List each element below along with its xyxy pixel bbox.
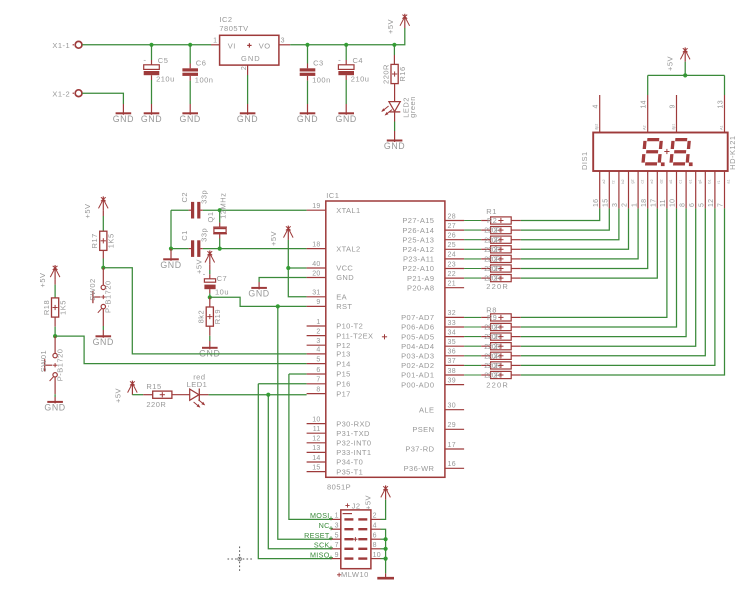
svg-text:GND: GND	[44, 403, 65, 413]
svg-text:2: 2	[494, 274, 498, 283]
junction XTAL2	[218, 247, 222, 251]
IC1 pin 29 PSEN	[412, 422, 464, 434]
IC1 pin 10 P30-RXD	[307, 416, 371, 428]
IC1 pin 8 P17	[307, 386, 351, 398]
net label SCK	[314, 541, 333, 550]
wire R5 to display	[521, 208, 638, 259]
crystal Q1 12MHz	[206, 193, 228, 239]
svg-text:SCK: SCK	[314, 541, 330, 550]
svg-text:8: 8	[316, 386, 320, 393]
wire XTAL2 net	[220, 248, 307, 250]
IC1 pin 17 P37-RD	[405, 442, 464, 454]
svg-text:LED1: LED1	[187, 380, 208, 389]
junction	[344, 43, 348, 47]
ground (LED2)	[384, 131, 405, 151]
R15 left stub	[143, 394, 153, 396]
wire SW1 to P14	[55, 336, 307, 364]
svg-text:P-B1720: P-B1720	[103, 280, 112, 313]
svg-text:P22-A10: P22-A10	[402, 264, 434, 273]
svg-text:13: 13	[312, 445, 320, 452]
svg-text:P04-AD4: P04-AD4	[401, 342, 434, 351]
IC1 pin 33 P06-AD6	[401, 320, 464, 332]
svg-text:33p: 33p	[200, 228, 209, 242]
wire C3 top	[307, 45, 309, 64]
svg-text:P01-AD1: P01-AD1	[401, 371, 434, 380]
svg-text:4: 4	[316, 347, 320, 354]
resistor R14 220R	[464, 370, 521, 379]
svg-text:P33-INT1: P33-INT1	[336, 448, 371, 457]
svg-text:P15: P15	[336, 370, 351, 379]
LED1 right stub	[199, 394, 208, 396]
net label MISO	[310, 550, 333, 559]
IC1 pin 12 P32-INT0	[307, 436, 372, 448]
+5V symbol (display)	[666, 47, 691, 71]
svg-text:220R: 220R	[484, 351, 500, 360]
LED D2 (LED2 green)	[381, 96, 417, 118]
svg-text:b2: b2	[621, 179, 625, 183]
svg-text:RST: RST	[336, 302, 352, 311]
svg-text:6: 6	[689, 203, 696, 207]
IC1 pin 4 P13	[307, 347, 351, 359]
junction SW1 net	[53, 334, 57, 338]
resistor R3 220R	[464, 235, 521, 244]
ground (SW1)	[44, 397, 65, 413]
svg-text:12: 12	[708, 199, 715, 207]
capacitor C5 210u	[143, 56, 174, 84]
display pin 13 stub	[718, 95, 725, 133]
svg-text:HD-K121: HD-K121	[728, 135, 737, 169]
J2 ground stub	[385, 573, 387, 578]
wire RST to J2 RESET	[278, 306, 331, 539]
svg-text:3: 3	[335, 522, 339, 529]
wire R8 to display	[521, 208, 667, 317]
wire P16 to J2 MISO	[258, 384, 331, 559]
svg-text:GND: GND	[336, 273, 354, 282]
svg-text:2: 2	[494, 370, 498, 379]
net label RESET	[304, 531, 333, 540]
SW1 bottom stub	[54, 377, 56, 394]
wire R17 to SW2	[102, 259, 104, 268]
wire J2 pin 8	[381, 548, 386, 550]
svg-text:R16: R16	[398, 66, 407, 81]
svg-text:g1: g1	[698, 179, 702, 183]
IC1 pin 40 VCC	[307, 261, 354, 273]
display pin 9 stub	[670, 95, 677, 133]
R18 top stub	[54, 279, 56, 284]
svg-text:c2: c2	[640, 180, 644, 184]
svg-text:GND: GND	[93, 337, 114, 347]
wire C5 top	[151, 45, 153, 60]
svg-text:2: 2	[316, 328, 320, 335]
svg-text:7: 7	[718, 203, 725, 207]
display origin cross	[664, 149, 669, 154]
junction	[305, 43, 309, 47]
svg-text:40: 40	[312, 261, 320, 268]
svg-text:NC: NC	[319, 521, 330, 530]
IC1 pin 19 XTAL1	[307, 203, 361, 215]
net label MOSI	[310, 511, 333, 520]
svg-text:15: 15	[603, 199, 610, 207]
svg-text:5: 5	[699, 203, 706, 207]
wire R11 to display	[521, 208, 696, 346]
svg-text:220R: 220R	[484, 226, 500, 235]
svg-text:P02-AD2: P02-AD2	[401, 361, 434, 370]
svg-text:10: 10	[312, 416, 320, 423]
svg-text:c1: c1	[679, 180, 683, 184]
ground (C6)	[180, 104, 201, 124]
svg-text:VI: VI	[228, 41, 236, 50]
svg-text:220R: 220R	[484, 323, 500, 332]
resistor R13 220R	[464, 361, 521, 370]
wire X1-2 to ground	[82, 93, 123, 104]
wire to pin 14	[647, 75, 649, 95]
svg-text:1: 1	[631, 203, 638, 207]
svg-text:g2: g2	[631, 179, 635, 183]
svg-text:14: 14	[641, 100, 648, 108]
wire C4 to ground	[345, 80, 347, 104]
svg-text:GND: GND	[141, 114, 162, 124]
svg-text:R17: R17	[90, 233, 99, 248]
IC1 pin 9 RST	[307, 299, 353, 311]
J2 pin 6 stub	[371, 532, 381, 539]
display pin 8 stub	[679, 171, 692, 208]
wire C6 to ground	[189, 81, 191, 104]
IC1 pin 39 P00-AD0	[401, 377, 464, 389]
svg-text:25: 25	[448, 242, 456, 249]
J2 pin 7 stub	[331, 542, 341, 549]
svg-text:12MHz: 12MHz	[219, 193, 228, 219]
wire P15 to J2 MOSI	[289, 374, 331, 519]
junction	[188, 43, 192, 47]
wire VCC stub	[288, 267, 306, 269]
wire R12 to display	[521, 208, 706, 355]
svg-text:dp2: dp2	[595, 124, 599, 130]
IC1 pin 15 P35-T1	[307, 464, 364, 476]
wire R13 to display	[521, 208, 715, 365]
IC1 pin 3 P12	[307, 338, 351, 350]
ground (C4)	[336, 104, 357, 124]
svg-text:2: 2	[494, 245, 498, 254]
IC1 pin 20 GND	[307, 270, 355, 282]
svg-text:P14: P14	[336, 359, 351, 368]
ground (SW2)	[93, 330, 114, 347]
IC1 pin 32 P07-AD7	[401, 310, 464, 322]
C2 plates	[191, 202, 200, 219]
IC1 pin 31 EA	[307, 290, 347, 302]
C2 left stub	[189, 209, 191, 211]
display pin 12 stub	[708, 171, 721, 208]
display pin 15 stub	[603, 171, 616, 208]
svg-text:P07-AD7: P07-AD7	[401, 313, 434, 322]
svg-text:9: 9	[335, 552, 339, 559]
ground (J2)	[377, 577, 394, 580]
svg-text:18: 18	[641, 199, 648, 207]
svg-text:220R: 220R	[484, 361, 500, 370]
svg-text:P24-A12: P24-A12	[402, 245, 434, 254]
wire C6 top	[189, 45, 191, 64]
resistor R1 220R	[464, 216, 521, 225]
svg-text:10: 10	[670, 199, 677, 207]
IC2 pin 1 stub	[211, 44, 220, 46]
IC1 pin 7 P16	[307, 377, 351, 389]
svg-text:P11-T2EX: P11-T2EX	[336, 331, 373, 340]
svg-text:16: 16	[593, 199, 600, 207]
svg-text:GND: GND	[180, 114, 201, 124]
svg-text:8k2: 8k2	[197, 310, 206, 324]
junction crystal ground	[169, 247, 173, 251]
svg-text:2: 2	[494, 322, 498, 331]
C5 bottom stub	[151, 75, 153, 80]
connector X1-1	[52, 41, 82, 50]
svg-text:PSEN: PSEN	[412, 425, 434, 434]
junction J2 pin 6	[384, 537, 388, 541]
capacitor C2 33p	[180, 190, 209, 204]
svg-text:R19: R19	[213, 309, 222, 324]
svg-text:220R: 220R	[484, 371, 500, 380]
svg-text:IC2: IC2	[219, 15, 232, 24]
svg-text:1: 1	[316, 319, 320, 326]
svg-text:GND: GND	[160, 260, 181, 270]
wire +5V to EA	[288, 240, 306, 297]
svg-text:X1-1: X1-1	[52, 41, 70, 50]
svg-text:8051P: 8051P	[327, 483, 351, 492]
display pin 11 stub	[660, 171, 673, 208]
svg-text:10u: 10u	[215, 288, 229, 297]
SW2 top stub	[102, 268, 104, 286]
resistor R6 220R	[464, 264, 521, 273]
svg-text:C6: C6	[196, 59, 207, 68]
connector J2 MLW10 body	[337, 501, 371, 579]
svg-text:9: 9	[670, 104, 677, 108]
svg-text:22: 22	[448, 271, 456, 278]
wire anode rail	[648, 74, 725, 76]
J2 pin 3 stub	[331, 522, 341, 529]
svg-text:4: 4	[593, 104, 600, 108]
wire R18 to SW1	[54, 327, 56, 336]
svg-text:5: 5	[335, 532, 339, 539]
svg-text:+5V: +5V	[83, 203, 92, 218]
wire C4 top	[345, 45, 347, 60]
svg-text:27: 27	[448, 223, 456, 230]
wire IC2 GND down	[247, 75, 249, 104]
svg-text:P30-RXD: P30-RXD	[336, 419, 371, 428]
wire C7 top	[209, 270, 211, 274]
IC1 pin 23 P22-A10	[402, 261, 464, 273]
svg-text:35: 35	[448, 339, 456, 346]
svg-text:3: 3	[612, 203, 619, 207]
wire C3 to ground	[307, 81, 309, 104]
J2 pin 4 stub	[371, 522, 381, 529]
wire P16 stub	[258, 383, 306, 385]
svg-text:220R: 220R	[486, 380, 509, 389]
svg-text:GND: GND	[237, 114, 258, 124]
wire P17 to J2 SCK	[268, 395, 331, 549]
svg-text:220R: 220R	[484, 342, 500, 351]
svg-text:12: 12	[312, 436, 320, 443]
svg-text:9: 9	[493, 313, 497, 322]
svg-text:26: 26	[448, 233, 456, 240]
IC1 pin 34 P05-AD5	[401, 329, 464, 341]
svg-text:green: green	[408, 96, 417, 118]
svg-text:GND: GND	[384, 141, 405, 151]
R17 top stub	[102, 211, 104, 216]
svg-text:R1: R1	[486, 207, 497, 216]
wire +5V to R17	[102, 216, 104, 231]
+5V symbol (C7)	[195, 251, 215, 275]
svg-text:d1: d1	[669, 179, 673, 183]
capacitor C4 210u	[338, 56, 369, 84]
display pin 6 stub	[689, 171, 702, 208]
svg-text:24: 24	[448, 252, 456, 259]
ground (IC1)	[248, 282, 269, 299]
svg-text:1K5: 1K5	[59, 300, 68, 315]
svg-text:C5: C5	[158, 56, 169, 65]
display pin 1 stub	[631, 171, 644, 208]
R19 top stub	[209, 297, 211, 307]
IC1 pin 35 P04-AD4	[401, 339, 464, 351]
svg-text:15: 15	[312, 464, 320, 471]
wire J2 pin 6	[381, 538, 386, 540]
svg-text:9: 9	[316, 299, 320, 306]
wire crystal caps ground rail	[170, 210, 172, 248]
svg-text:17: 17	[448, 442, 456, 449]
svg-text:X1-2: X1-2	[52, 89, 70, 98]
wire R2 to display	[521, 208, 610, 230]
svg-text:GND: GND	[113, 114, 134, 124]
R18 bottom stub	[54, 317, 56, 327]
LED2 bottom stub	[394, 112, 396, 122]
wire R4 to display	[521, 208, 629, 249]
svg-text:P32-INT0: P32-INT0	[336, 439, 371, 448]
wire R6 to display	[521, 208, 648, 268]
IC1 pin 24 P23-A11	[403, 252, 464, 264]
wire R19 to ground	[209, 336, 211, 341]
svg-text:GND: GND	[336, 114, 357, 124]
svg-text:R15: R15	[146, 382, 161, 391]
ground (R19)	[199, 341, 220, 358]
IC2 pin 3 stub	[279, 44, 290, 46]
svg-text:Q1: Q1	[206, 211, 215, 222]
svg-text:7: 7	[316, 377, 320, 384]
display decimal point 1	[661, 162, 665, 166]
wire Q1 bottom	[219, 239, 221, 249]
svg-text:2: 2	[494, 351, 498, 360]
svg-text:4: 4	[373, 522, 377, 529]
svg-text:P34-T0: P34-T0	[336, 458, 363, 467]
svg-text:P17: P17	[336, 389, 351, 398]
wire R9 to display	[521, 208, 677, 327]
svg-text:R18: R18	[42, 300, 51, 315]
svg-text:34: 34	[448, 329, 456, 336]
svg-text:29: 29	[448, 422, 456, 429]
display DIS1 HD-K121 body	[580, 133, 737, 172]
svg-text:e2: e2	[650, 179, 654, 183]
IC1 pin 22 P21-A9	[407, 271, 464, 283]
capacitor C6 100n	[182, 59, 213, 85]
svg-text:P31-TXD: P31-TXD	[336, 429, 370, 438]
svg-text:P26-A14: P26-A14	[402, 226, 434, 235]
svg-text:2: 2	[494, 342, 498, 351]
J2 pin 2 stub	[371, 513, 381, 520]
svg-text:+5V: +5V	[364, 495, 373, 510]
display pin 2 stub	[622, 171, 635, 208]
svg-text:A1: A1	[720, 125, 724, 130]
SW2 bottom stub	[102, 309, 104, 326]
resistor R16 220R	[381, 64, 407, 84]
svg-text:1K5: 1K5	[107, 233, 116, 248]
svg-text:P03-AD3: P03-AD3	[401, 352, 434, 361]
J2 pin 10 stub	[371, 552, 381, 559]
wire X1-1 to IC2 VI	[82, 44, 211, 46]
wire +5V to R15	[132, 394, 143, 396]
svg-text:GND: GND	[241, 54, 261, 63]
wire R3 to display	[521, 208, 619, 239]
svg-text:A2: A2	[643, 125, 647, 130]
svg-text:XTAL2: XTAL2	[336, 244, 360, 253]
wire R16 top	[393, 45, 395, 55]
junction RST/C7	[208, 295, 212, 299]
wire C7 to RST	[210, 297, 278, 306]
svg-text:P27-A15: P27-A15	[402, 216, 434, 225]
svg-text:P25-A13: P25-A13	[402, 235, 434, 244]
svg-text:220R: 220R	[486, 282, 509, 291]
sheet origin crosshair	[228, 547, 253, 572]
svg-text:210u: 210u	[156, 75, 175, 84]
svg-text:P36-WR: P36-WR	[404, 464, 435, 473]
wire LED1 to P17	[209, 394, 307, 396]
SW1 top stub	[54, 336, 56, 353]
J2 pin 9 stub	[331, 552, 341, 559]
svg-text:100n: 100n	[312, 75, 331, 84]
+5V symbol (VCC)	[269, 226, 293, 246]
IC1 pin 28 P27-A15	[402, 213, 464, 225]
svg-text:37: 37	[448, 358, 456, 365]
svg-text:220R: 220R	[146, 400, 166, 409]
svg-text:P16: P16	[336, 380, 351, 389]
junction RST	[276, 304, 280, 308]
net label NC	[319, 521, 333, 530]
ground (C5)	[141, 104, 162, 124]
IC1 pin 27 P26-A14	[402, 223, 464, 235]
R17 bottom stub	[102, 250, 104, 258]
capacitor C7 10u	[203, 269, 229, 296]
svg-text:C2: C2	[180, 192, 189, 203]
wire C7 bottom	[209, 293, 211, 297]
J2 pin 5 stub	[331, 532, 341, 539]
resistor R15 220R	[146, 382, 172, 409]
svg-text:2: 2	[493, 216, 497, 225]
svg-text:C1: C1	[180, 230, 189, 241]
C4 bottom stub	[345, 75, 347, 80]
svg-text:P20-A8: P20-A8	[407, 283, 434, 292]
svg-text:P21-A9: P21-A9	[407, 274, 434, 283]
resistor R2 220R	[464, 226, 521, 235]
svg-text:33: 33	[448, 320, 456, 327]
svg-text:210u: 210u	[351, 75, 370, 84]
resistor R12 220R	[464, 351, 521, 360]
wire R7 to display	[521, 208, 658, 278]
capacitor C1 33p	[180, 228, 209, 242]
svg-text:1: 1	[213, 38, 217, 45]
wire R1 to display	[521, 208, 600, 220]
IC1 pin 6 P15	[307, 367, 351, 379]
svg-text:220R: 220R	[484, 235, 500, 244]
svg-text:2: 2	[494, 226, 498, 235]
svg-text:7: 7	[335, 542, 339, 549]
display digit 2	[669, 138, 691, 166]
R15 to LED1 lead	[172, 394, 190, 396]
svg-text:-: -	[338, 56, 341, 65]
